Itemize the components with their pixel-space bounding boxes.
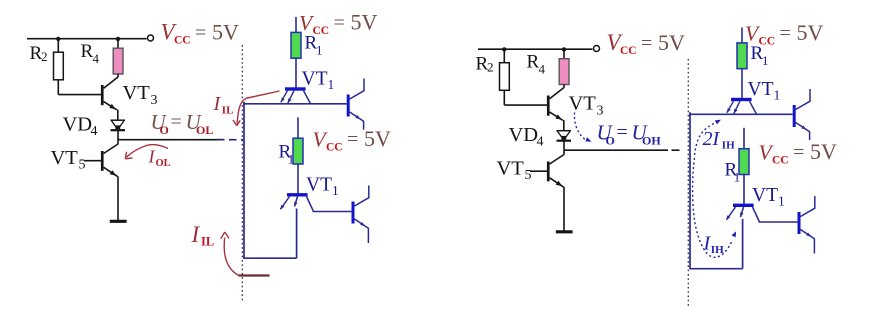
svg-text:OH: OH <box>642 134 661 148</box>
transistor load VT2 (left upper load) <box>347 95 350 117</box>
wire dotted separator line (left) <box>241 45 243 303</box>
transistor VT1 multi-emitter (right upper load) <box>731 98 752 101</box>
wire dashed link output to load (left) <box>217 139 243 141</box>
svg-text:VD: VD <box>63 114 93 136</box>
svg-text:3: 3 <box>151 93 158 108</box>
wire VT3 emitter to VD4 (right) <box>563 120 565 131</box>
svg-text:1: 1 <box>774 88 781 103</box>
svg-text:OL: OL <box>156 158 171 169</box>
ground (right) <box>556 230 573 233</box>
wire Vcc rail top (left) <box>27 38 147 40</box>
transistor VT5 (left) <box>101 151 104 171</box>
wire collector to VT2 (right lower load) <box>759 221 798 223</box>
node junction dot at R4 top (right) <box>562 47 566 51</box>
resistor R1 (right upper load) <box>737 43 747 69</box>
svg-text:2: 2 <box>41 49 48 64</box>
svg-text:I: I <box>148 146 156 166</box>
svg-text:CC: CC <box>313 25 330 37</box>
diode VD4 (left) <box>111 119 126 121</box>
svg-text:1: 1 <box>332 183 339 198</box>
svg-text:=: = <box>334 12 345 34</box>
resistor R2 (right) <box>500 63 510 91</box>
resistor R1 (left upper load) <box>291 32 301 58</box>
wire R4 bottom lead (right) <box>563 85 565 88</box>
wire load bus bottom horizontal (right) <box>689 268 742 270</box>
transistor load VT2 (left lower load) <box>352 202 355 224</box>
wire R2 bottom lead to VT3 base (left) <box>57 80 59 95</box>
wire dotted separator line (right) <box>687 59 689 306</box>
wire collector to VT2 (left lower load) <box>313 211 352 213</box>
wire upper load gate input line (right) <box>689 113 793 115</box>
transistor VT5 (right) <box>547 162 550 182</box>
svg-text:CC: CC <box>620 45 637 57</box>
svg-text:2I: 2I <box>703 128 721 150</box>
transistor VT3 (right) <box>547 96 550 116</box>
wire R2 top lead (right) <box>503 49 505 63</box>
svg-text:1: 1 <box>734 169 741 184</box>
wire Vcc stub above R1 (left lower load) <box>297 117 299 138</box>
svg-text:4: 4 <box>91 124 98 139</box>
svg-text:5: 5 <box>525 168 532 183</box>
svg-text:IH: IH <box>711 244 724 256</box>
node Vcc terminal circle (right) <box>594 46 600 52</box>
svg-text:VT: VT <box>569 93 597 115</box>
wire R1 bottom lead to VT1 base (right lower load) <box>743 175 745 204</box>
wire VT3 emitter to VD4 (left) <box>117 110 119 121</box>
wire load input bus vertical (left) <box>243 102 245 258</box>
current arrow I_OL (left) <box>127 145 169 158</box>
resistor R1 (right lower load) <box>739 149 749 175</box>
svg-text:=: = <box>195 22 206 44</box>
svg-text:4: 4 <box>93 51 100 66</box>
svg-text:4: 4 <box>539 61 546 76</box>
svg-text:5: 5 <box>79 158 86 173</box>
svg-text:3: 3 <box>597 103 604 118</box>
wire VT5 base stub (left) <box>84 160 101 162</box>
wire VT5 emitter to ground (right) <box>563 187 565 231</box>
transistor VT1 multi-emitter (left upper load) <box>285 87 306 90</box>
svg-text:IL: IL <box>201 235 214 249</box>
wire VT5 emitter to ground (left) <box>117 176 119 220</box>
wire R1 bottom lead to VT1 base (right upper load) <box>741 69 743 98</box>
svg-text:1: 1 <box>778 193 785 208</box>
resistor R4 (left) <box>113 48 123 74</box>
svg-text:VT: VT <box>748 79 774 100</box>
svg-text:VT: VT <box>752 185 778 206</box>
wire R4 top lead (left) <box>117 39 119 49</box>
wire stub dark red (left bottom) <box>239 274 270 276</box>
svg-text:5V: 5V <box>351 10 378 35</box>
node Vcc terminal circle (left) <box>148 35 154 41</box>
svg-text:=: = <box>780 23 791 45</box>
wire load bus bottom horizontal (left) <box>243 257 296 259</box>
ground (left) <box>110 220 127 223</box>
svg-text:1: 1 <box>316 43 323 58</box>
svg-text:5V: 5V <box>797 20 824 45</box>
current arrow I_IL upper (left) <box>237 91 280 124</box>
svg-text:O: O <box>160 123 169 137</box>
svg-text:VT: VT <box>497 158 525 180</box>
wire VD4 cathode / output node vertical (right) <box>563 141 565 155</box>
svg-text:IL: IL <box>222 105 234 117</box>
wire R4 bottom lead (left) <box>117 74 119 77</box>
svg-text:VT: VT <box>302 69 328 90</box>
wire output node U_O (right) <box>564 149 668 151</box>
svg-text:=: = <box>641 32 652 54</box>
svg-text:I: I <box>191 222 201 247</box>
wire Vcc stub above R1 (left upper load) <box>295 17 297 32</box>
svg-text:=: = <box>793 142 804 164</box>
svg-text:CC: CC <box>759 35 776 47</box>
current arrow I_IL lower (left) <box>224 238 238 276</box>
node junction dot at R2 top (left) <box>56 37 60 41</box>
svg-text:O: O <box>606 134 615 148</box>
current arrow I_IH loop (right) <box>693 158 733 257</box>
current arrow 2I_IH into output node (right) <box>574 113 585 140</box>
wire R1 bottom lead to VT1 base (left lower load) <box>297 164 299 193</box>
wire Vcc rail top (right) <box>478 48 593 50</box>
wire R4 top lead (right) <box>563 49 565 59</box>
svg-text:OL: OL <box>196 123 213 137</box>
resistor R4 (right) <box>559 59 569 85</box>
svg-text:VT: VT <box>306 174 332 195</box>
resistor R1 (left lower load) <box>293 138 303 164</box>
transistor VT3 (left) <box>101 85 104 105</box>
svg-text:CC: CC <box>326 141 343 153</box>
current arrow 2I_IH to upper emitters (right) <box>695 122 717 155</box>
svg-text:I: I <box>213 93 222 115</box>
node junction dot at R4 top (left) <box>116 37 120 41</box>
wire R1 bottom lead to VT1 base (left upper load) <box>295 58 297 87</box>
transistor VT1 multi-emitter (left lower load) <box>287 193 308 196</box>
svg-text:5V: 5V <box>364 126 391 151</box>
wire R2 top lead (left) <box>57 39 59 53</box>
wire load input bus vertical (right) <box>689 112 691 268</box>
svg-text:=: = <box>347 129 358 151</box>
svg-text:CC: CC <box>174 35 191 47</box>
wire mid emitter to bus (right lower load) <box>742 219 744 269</box>
svg-text:4: 4 <box>537 134 544 149</box>
node junction dot at R2 top (right) <box>502 47 506 51</box>
wire upper load gate input line (left) <box>243 103 347 105</box>
svg-text:5V: 5V <box>658 30 685 55</box>
svg-text:IH: IH <box>722 139 735 151</box>
svg-text:1: 1 <box>288 151 295 166</box>
svg-text:5V: 5V <box>212 19 239 44</box>
wire mid emitter to bus (left lower load) <box>296 209 298 259</box>
svg-text:5V: 5V <box>810 139 837 164</box>
svg-text:2: 2 <box>487 60 494 75</box>
wire R2 bottom lead to VT3 base (right) <box>503 90 505 105</box>
wire dash link output to load (right) <box>672 149 680 151</box>
wire Vcc stub above R1 (right lower load) <box>743 128 745 149</box>
svg-text:VT: VT <box>123 82 151 104</box>
resistor R2 (left) <box>54 52 64 80</box>
svg-text:1: 1 <box>328 77 335 92</box>
wire Vcc stub above R1 (right upper load) <box>741 28 743 43</box>
wire VD4 cathode / output node vertical (left) <box>117 130 119 144</box>
svg-text:=: = <box>171 111 182 133</box>
transistor load VT2 (right upper load) <box>793 105 796 127</box>
svg-text:=: = <box>617 122 628 144</box>
svg-text:CC: CC <box>772 154 789 166</box>
wire output node U_O (left) <box>118 139 222 141</box>
svg-text:1: 1 <box>762 53 769 68</box>
transistor VT1 multi-emitter (right lower load) <box>733 204 754 207</box>
transistor load VT2 (right lower load) <box>798 212 801 234</box>
diode VD4 (right) <box>557 130 572 132</box>
svg-text:VD: VD <box>509 124 539 146</box>
svg-text:VT: VT <box>51 147 79 169</box>
wire VT5 base stub (right) <box>530 170 547 172</box>
